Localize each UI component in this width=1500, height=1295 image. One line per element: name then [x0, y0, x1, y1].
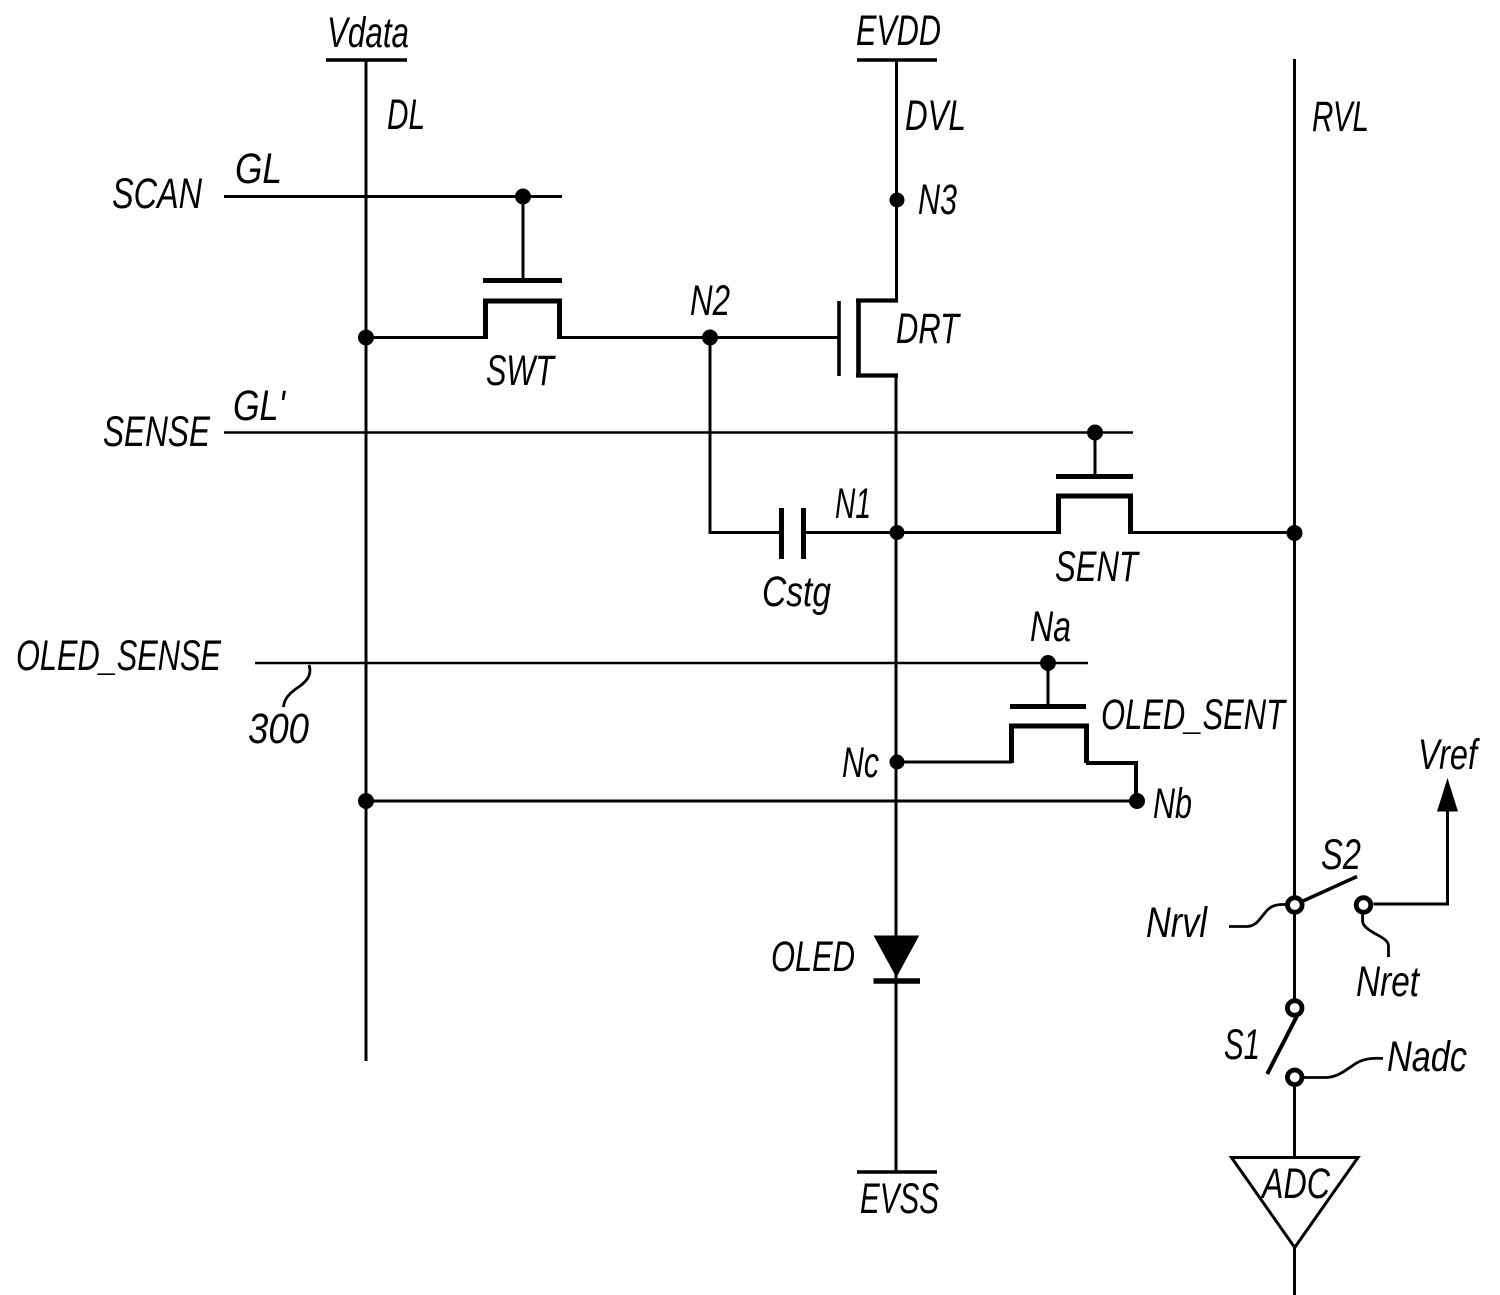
- svg-text:Vdata: Vdata: [327, 9, 409, 57]
- Nret leader squiggle: [1363, 913, 1389, 958]
- wire Nadc to ADC: [1293, 1087, 1296, 1157]
- wire DL to SWT source: [366, 336, 486, 339]
- node N1 junction dot: [890, 525, 905, 540]
- svg-text:SENT: SENT: [1055, 543, 1140, 591]
- svg-text:Nc: Nc: [842, 739, 879, 787]
- svg-text:Vref: Vref: [1418, 731, 1480, 779]
- wire SENT gate stem: [1094, 433, 1097, 475]
- node Nret terminal circle: [1356, 898, 1371, 913]
- svg-text:SWT: SWT: [486, 347, 556, 395]
- transistor SWT gate bar: [483, 278, 562, 283]
- transistor OLED_SENT channel: [1012, 726, 1087, 763]
- switch S2 lever: [1303, 877, 1357, 902]
- capacitor Cstg right plate: [801, 508, 806, 559]
- svg-text:300: 300: [248, 705, 309, 753]
- svg-text:S1: S1: [1224, 1021, 1260, 1069]
- EVDD terminal bar: [857, 58, 937, 61]
- Nrvl leader squiggle: [1229, 905, 1286, 927]
- wire SWT gate stem: [522, 197, 525, 279]
- reference 300 leader squiggle: [284, 665, 310, 707]
- svg-text:EVDD: EVDD: [856, 7, 941, 55]
- node N2 junction dot: [702, 330, 718, 346]
- svg-text:Cstg: Cstg: [762, 568, 831, 616]
- svg-text:S2: S2: [1321, 831, 1361, 879]
- node EVSS terminal bar: [857, 1170, 937, 1173]
- svg-text:GL': GL': [233, 382, 286, 430]
- wire SWT drain to DRT gate: [559, 336, 838, 339]
- junction dot on DL at Nb line: [358, 793, 374, 809]
- svg-text:Nadc: Nadc: [1387, 1033, 1467, 1081]
- node Nb junction dot: [1129, 793, 1145, 809]
- svg-text:N2: N2: [690, 277, 730, 325]
- Vdata terminal bar: [326, 58, 407, 61]
- transistor SENT channel: [1059, 496, 1131, 534]
- svg-text:DL: DL: [387, 91, 425, 139]
- svg-text:DVL: DVL: [905, 92, 966, 140]
- diode OLED cathode bar: [874, 978, 921, 984]
- svg-text:SENSE: SENSE: [103, 408, 211, 456]
- wire DVL lower from DRT source to EVSS: [895, 375, 898, 1171]
- wire RVL vertical reference line: [1293, 59, 1296, 896]
- wire OLED_SENT gate stem: [1047, 663, 1050, 704]
- svg-text:OLED: OLED: [771, 933, 855, 981]
- node Nrvl terminal circle: [1288, 898, 1303, 913]
- svg-text:RVL: RVL: [1312, 93, 1369, 141]
- wire OLED_SENSE line: [255, 662, 1088, 665]
- node Na junction dot: [1040, 655, 1056, 671]
- wire Vref stem: [1446, 808, 1449, 904]
- svg-text:Nb: Nb: [1153, 780, 1192, 828]
- junction dot on RVL at SENT: [1287, 525, 1303, 541]
- wire N2 corner to Cstg left plate: [709, 531, 780, 534]
- wire Nb horizontal line: [366, 800, 1137, 803]
- wire RVL between S2 and S1: [1293, 915, 1296, 999]
- svg-text:EVSS: EVSS: [860, 1175, 939, 1223]
- svg-text:N1: N1: [835, 480, 871, 528]
- svg-text:DRT: DRT: [896, 305, 961, 353]
- svg-text:OLED_SENT: OLED_SENT: [1101, 691, 1287, 739]
- transistor DRT gate bar: [837, 301, 841, 376]
- svg-text:SCAN: SCAN: [112, 170, 203, 218]
- svg-text:Nret: Nret: [1356, 958, 1421, 1006]
- node N3 junction dot: [890, 193, 905, 208]
- wire ADC output: [1293, 1248, 1296, 1295]
- junction dot on DL at SWT source: [358, 330, 374, 346]
- switch S1 upper circle: [1287, 1001, 1302, 1016]
- transistor SENT gate bar: [1056, 474, 1133, 479]
- diode OLED anode triangle: [874, 936, 920, 978]
- Nadc leader squiggle: [1303, 1058, 1383, 1077]
- capacitor Cstg left plate: [779, 508, 784, 559]
- node Nc junction dot: [890, 755, 905, 770]
- wire GL scan line: [224, 195, 562, 198]
- wire DL vertical data line: [365, 60, 368, 1061]
- node Nadc terminal circle: [1287, 1070, 1302, 1085]
- svg-text:Na: Na: [1030, 603, 1071, 651]
- op-amp ADC triangle: [1232, 1158, 1359, 1248]
- svg-text:Nrvl: Nrvl: [1146, 899, 1208, 947]
- wire Nret to Vref horizontal: [1374, 903, 1450, 906]
- svg-text:N3: N3: [918, 176, 957, 224]
- svg-text:ADC: ADC: [1260, 1160, 1331, 1208]
- transistor OLED_SENT gate bar: [1010, 704, 1086, 709]
- wire Nc to OLED_SENT source: [897, 761, 1012, 764]
- junction dot on GL at SWT gate: [515, 189, 531, 205]
- junction dot on GL' at SENT gate: [1087, 425, 1103, 441]
- svg-text:OLED_SENSE: OLED_SENSE: [16, 632, 222, 680]
- svg-text:GL: GL: [235, 145, 282, 193]
- switch S1 lever: [1267, 1016, 1297, 1074]
- wire N1 to SENT source: [806, 531, 1059, 534]
- wire N2 vertical to Cstg: [709, 338, 712, 532]
- transistor DRT drain arm: [856, 298, 898, 302]
- wire GL' sense line: [224, 431, 1133, 434]
- wire DVL vertical drive line upper: [895, 60, 898, 302]
- transistor DRT channel bar: [856, 299, 861, 378]
- wire SENT drain to RVL: [1130, 531, 1294, 534]
- transistor SWT channel: [486, 301, 560, 339]
- Vref arrowhead: [1437, 778, 1458, 812]
- transistor DRT source arm: [856, 373, 898, 377]
- wire OLED_SENT drain step down to Nb: [1086, 763, 1136, 801]
